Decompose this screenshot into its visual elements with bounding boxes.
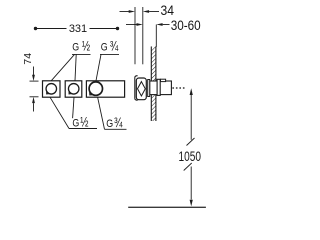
svg-text:G: G — [72, 42, 79, 54]
svg-text:34: 34 — [161, 3, 175, 18]
svg-text:331: 331 — [69, 23, 87, 35]
svg-text:½: ½ — [80, 115, 88, 130]
svg-text:½: ½ — [82, 39, 90, 54]
svg-text:G: G — [72, 118, 79, 130]
svg-text:30-60: 30-60 — [171, 18, 201, 33]
svg-text:¾: ¾ — [110, 39, 119, 54]
svg-text:1050: 1050 — [179, 149, 202, 164]
svg-text:G: G — [106, 118, 113, 130]
svg-text:¾: ¾ — [114, 115, 123, 130]
svg-text:74: 74 — [22, 53, 34, 65]
svg-text:G: G — [101, 42, 108, 54]
